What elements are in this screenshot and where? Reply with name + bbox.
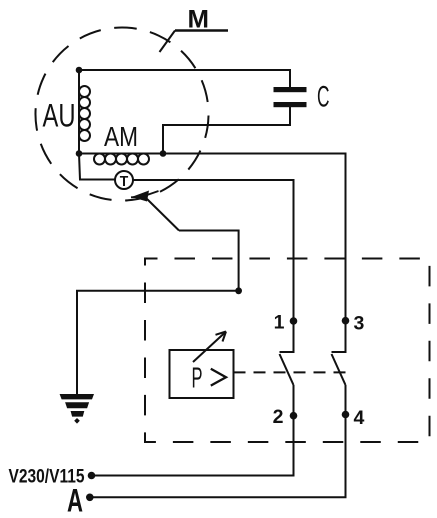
svg-text:C: C [317, 81, 330, 114]
wire: ground junction to earth [77, 291, 239, 394]
terminal V230/V115 [9, 467, 96, 488]
wire: AM right node to contact 3 [163, 154, 346, 321]
winding AU (auxiliary) [43, 70, 91, 154]
pin 1 [274, 312, 298, 334]
pin 2 [273, 406, 298, 428]
wire: junction down to thermal protector [79, 154, 115, 180]
pin 4 [342, 407, 365, 429]
svg-text:T: T [120, 173, 129, 190]
linkage (dashed) pressure switch to contacts [234, 371, 353, 373]
node: ground wire junction [235, 287, 242, 294]
label M [160, 6, 229, 53]
node: AU bottom / AM left junction [76, 150, 83, 157]
wire: thermal protector to contact 1 [133, 180, 294, 321]
wire: contact 2 to terminal V230/V115 [92, 416, 294, 476]
svg-text:AU: AU [43, 98, 76, 134]
winding AM (main) [79, 121, 163, 165]
wire: contact 4 to terminal A [90, 415, 346, 498]
node: AU top junction [76, 67, 83, 74]
terminal A [67, 483, 94, 518]
wire: capacitor bottom to AM right node [163, 107, 290, 154]
svg-text:2: 2 [273, 406, 284, 428]
thermal protector T [115, 171, 133, 190]
contact 1-2 [280, 321, 294, 416]
pin 3 [342, 313, 365, 335]
wire: AU top to capacitor top [79, 70, 290, 87]
svg-text:4: 4 [354, 407, 365, 429]
contact 3-4 [332, 321, 346, 415]
actuator arrow from thermal protector [131, 191, 179, 231]
svg-text:3: 3 [354, 313, 365, 335]
svg-text:P: P [192, 363, 203, 395]
motor boundary circle [35, 27, 208, 200]
enclosure (pressure switch dashed box) [145, 259, 430, 443]
ground (earth symbol) [60, 394, 94, 424]
capacitor C [274, 81, 330, 114]
node: AM right junction [160, 150, 167, 157]
svg-text:AM: AM [104, 121, 138, 152]
wire: actuator to ground junction [179, 231, 239, 291]
svg-text:1: 1 [274, 312, 285, 334]
svg-text:A: A [67, 483, 83, 518]
pressure switch P [170, 332, 234, 399]
